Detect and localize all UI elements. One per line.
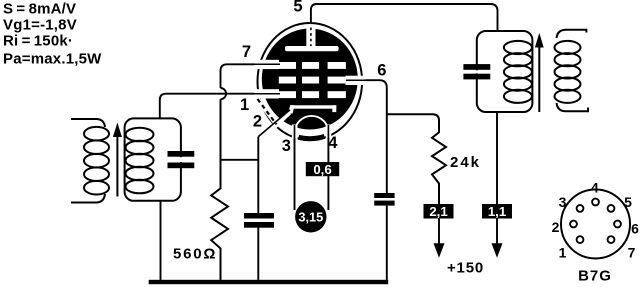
svg-text:2,1: 2,1 [429, 204, 447, 219]
svg-text:S = 8mA/V: S = 8mA/V [3, 1, 76, 18]
svg-text:2: 2 [552, 219, 560, 235]
svg-text:3: 3 [282, 137, 291, 155]
svg-text:6: 6 [631, 221, 639, 237]
svg-text:Vg1=-1,8V: Vg1=-1,8V [3, 17, 77, 34]
svg-text:7: 7 [628, 245, 636, 261]
svg-text:3: 3 [559, 194, 567, 210]
svg-text:4: 4 [328, 134, 338, 152]
svg-text:1: 1 [559, 245, 567, 261]
svg-text:0,6: 0,6 [313, 162, 331, 177]
svg-text:B7G: B7G [578, 268, 612, 285]
svg-text:5: 5 [293, 0, 302, 16]
svg-text:4: 4 [591, 180, 599, 196]
svg-text:Ri = 150k·: Ri = 150k· [3, 33, 73, 50]
svg-text:1: 1 [240, 96, 249, 114]
svg-text:3,15: 3,15 [298, 210, 323, 225]
svg-text:2: 2 [253, 113, 262, 131]
svg-text:6: 6 [377, 62, 386, 80]
svg-text:7: 7 [242, 43, 251, 61]
svg-text:560Ω: 560Ω [173, 246, 217, 263]
svg-text:24k: 24k [450, 154, 481, 171]
svg-text:1,1: 1,1 [488, 204, 506, 219]
svg-text:5: 5 [624, 194, 632, 210]
svg-text:+150: +150 [447, 260, 484, 277]
svg-text:Pa=max.1,5W: Pa=max.1,5W [3, 51, 102, 68]
